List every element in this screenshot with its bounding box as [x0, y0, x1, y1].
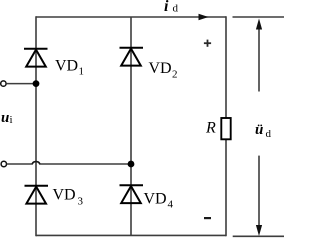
crossover hop arc — [32, 162, 40, 164]
svg-text:3: 3 — [78, 196, 84, 208]
svg-text:2: 2 — [172, 69, 178, 81]
u_d lower arrow (points down) — [258, 156, 260, 226]
wire: input 2 with crossover hop to node B — [7, 162, 131, 164]
wire: input 1 to node — [6, 83, 36, 85]
svg-text:VD: VD — [149, 60, 172, 77]
svg-text:VD: VD — [55, 58, 78, 75]
wire: bottom rail — [36, 234, 226, 236]
diode VD1 — [24, 49, 48, 67]
current arrow on top rail — [199, 14, 209, 21]
diode VD2 — [120, 48, 144, 66]
svg-text:4: 4 — [168, 199, 174, 211]
svg-text:VD: VD — [144, 191, 167, 208]
node A junction dot — [33, 80, 40, 87]
svg-text:R: R — [205, 120, 216, 137]
plus sign — [204, 40, 211, 47]
wire: u_d top reference line — [233, 16, 285, 18]
svg-text:d: d — [266, 128, 272, 140]
svg-text:1: 1 — [79, 66, 85, 78]
svg-text:u: u — [1, 110, 9, 126]
minus sign — [204, 217, 211, 219]
svg-text:VD: VD — [53, 187, 76, 204]
diode VD4 — [120, 185, 144, 203]
input terminal 2 — [1, 161, 6, 166]
resistor R body — [221, 118, 230, 139]
input terminal 1 — [1, 81, 6, 86]
svg-text:i: i — [10, 114, 13, 126]
wire: top rail — [36, 16, 226, 18]
u_d upper arrow (points up) — [258, 29, 260, 92]
wire: u_d bottom reference line — [233, 235, 284, 237]
wire: middle vertical branch — [130, 17, 132, 235]
svg-text:ü: ü — [255, 122, 263, 138]
svg-text:d: d — [173, 3, 179, 15]
node B junction dot — [128, 161, 135, 168]
wire: left vertical branch — [35, 16, 37, 236]
wire: right vertical branch — [225, 16, 227, 236]
diode VD3 — [25, 186, 49, 204]
svg-text:i: i — [164, 0, 169, 15]
